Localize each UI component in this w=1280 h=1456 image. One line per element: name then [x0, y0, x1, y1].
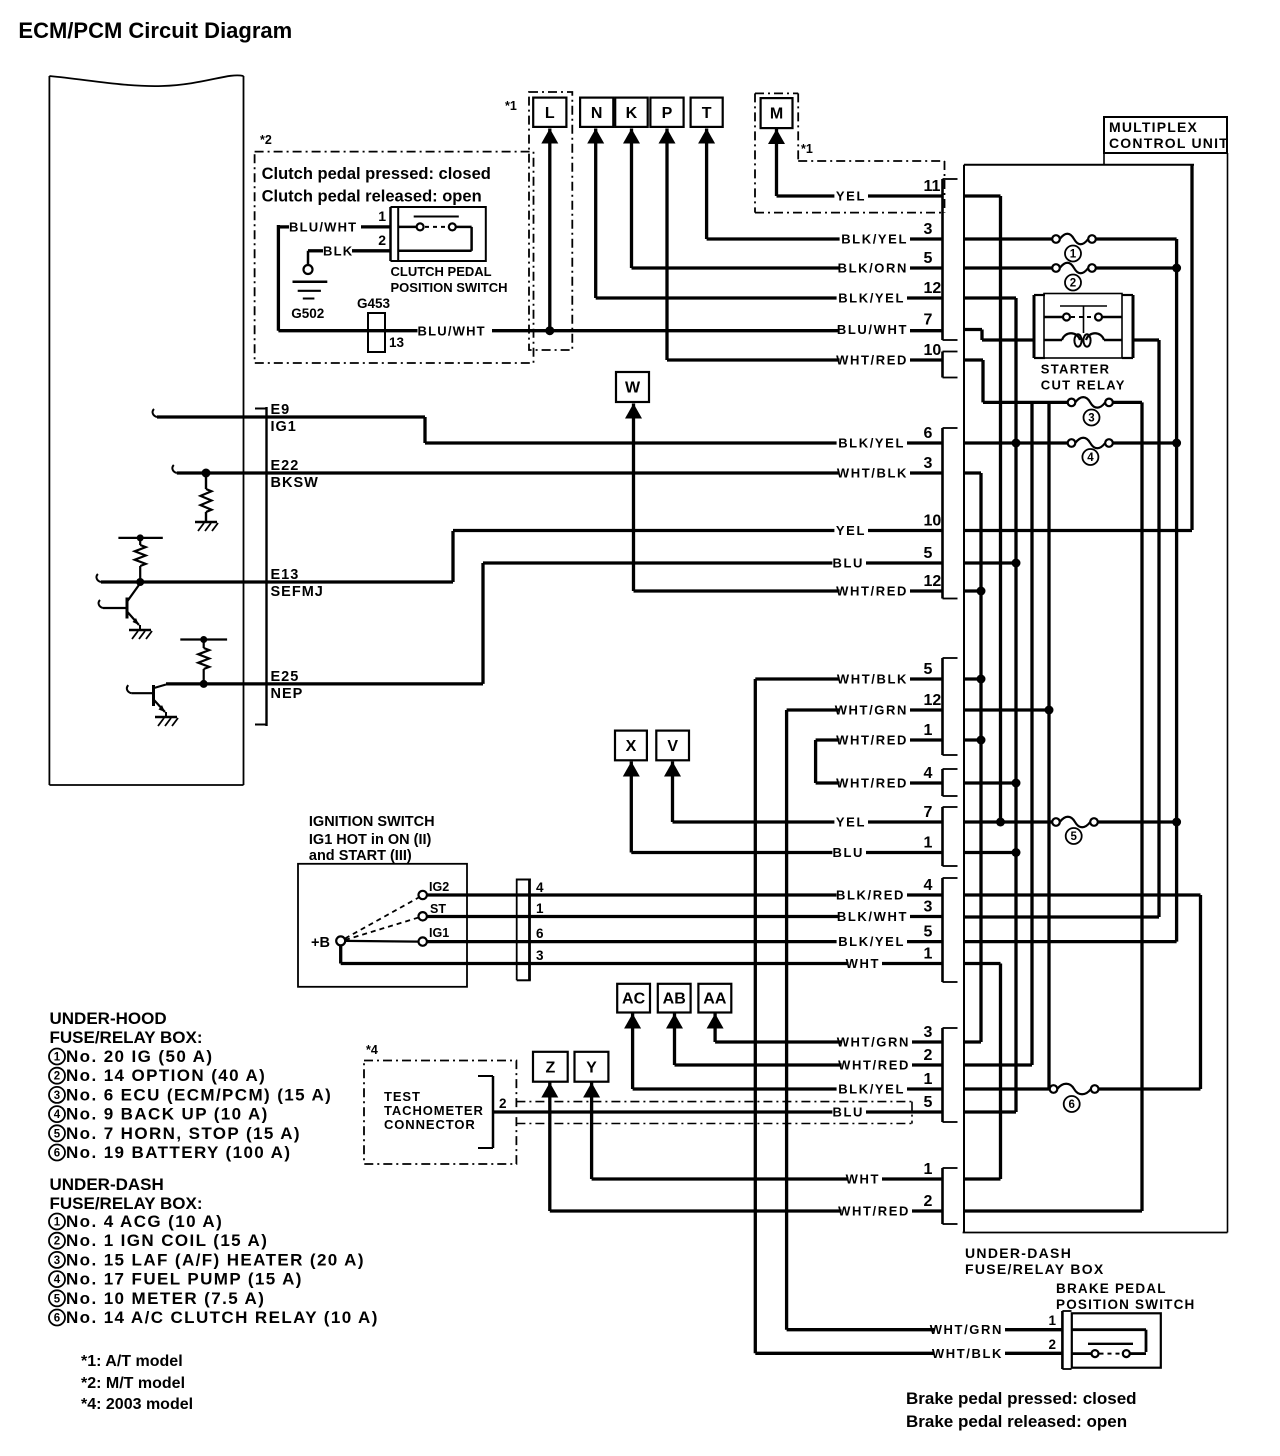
- svg-text:BLK/RED: BLK/RED: [836, 888, 905, 903]
- svg-text:WHT/BLK: WHT/BLK: [837, 466, 908, 481]
- svg-text:UNDER-HOOD: UNDER-HOOD: [50, 1009, 167, 1028]
- svg-text:WHT/GRN: WHT/GRN: [835, 703, 908, 718]
- svg-text:WHT/RED: WHT/RED: [838, 1204, 910, 1219]
- svg-text:1: 1: [378, 208, 386, 224]
- svg-text:13: 13: [389, 335, 405, 350]
- svg-text:FUSE/RELAY BOX: FUSE/RELAY BOX: [965, 1261, 1105, 1277]
- svg-text:2: 2: [378, 232, 386, 248]
- svg-text:5: 5: [924, 250, 933, 267]
- svg-text:No. 10 METER (7.5 A): No. 10 METER (7.5 A): [66, 1289, 265, 1308]
- svg-text:POSITION SWITCH: POSITION SWITCH: [391, 280, 508, 295]
- svg-text:Y: Y: [586, 1059, 597, 1076]
- svg-text:5: 5: [924, 545, 933, 562]
- svg-text:10: 10: [924, 513, 942, 530]
- svg-text:Clutch pedal released: open: Clutch pedal released: open: [262, 188, 482, 206]
- svg-text:12: 12: [924, 280, 942, 297]
- svg-text:6: 6: [536, 926, 544, 941]
- svg-text:3: 3: [924, 455, 933, 472]
- svg-text:*1: *1: [801, 142, 813, 156]
- svg-text:No. 19 BATTERY (100 A): No. 19 BATTERY (100 A): [66, 1143, 291, 1162]
- svg-text:2: 2: [499, 1096, 507, 1111]
- svg-text:Clutch pedal pressed: closed: Clutch pedal pressed: closed: [262, 165, 491, 183]
- svg-text:P: P: [662, 105, 673, 122]
- svg-text:IGNITION SWITCH: IGNITION SWITCH: [309, 814, 435, 830]
- svg-text:3: 3: [924, 1024, 933, 1041]
- svg-text:AB: AB: [663, 991, 686, 1008]
- svg-text:Z: Z: [545, 1059, 555, 1076]
- svg-text:IG1: IG1: [429, 926, 449, 940]
- svg-text:5: 5: [1070, 831, 1077, 843]
- svg-text:YEL: YEL: [836, 815, 866, 830]
- svg-text:Brake pedal pressed: closed: Brake pedal pressed: closed: [906, 1389, 1137, 1408]
- svg-text:11: 11: [924, 178, 941, 195]
- svg-text:5: 5: [54, 1128, 61, 1140]
- svg-text:1: 1: [924, 1161, 933, 1178]
- svg-text:TEST: TEST: [384, 1089, 421, 1104]
- svg-text:1: 1: [536, 901, 544, 916]
- svg-text:AC: AC: [622, 991, 646, 1008]
- svg-text:WHT: WHT: [846, 1172, 880, 1187]
- svg-text:WHT/RED: WHT/RED: [836, 776, 908, 791]
- svg-text:AA: AA: [703, 991, 727, 1008]
- svg-text:IG1: IG1: [271, 419, 297, 435]
- svg-text:2: 2: [54, 1236, 60, 1248]
- svg-text:WHT/GRN: WHT/GRN: [930, 1322, 1003, 1337]
- svg-text:FUSE/RELAY BOX:: FUSE/RELAY BOX:: [50, 1028, 203, 1047]
- svg-text:N: N: [591, 105, 603, 122]
- svg-text:BLU: BLU: [832, 845, 864, 860]
- svg-text:WHT/BLK: WHT/BLK: [837, 672, 908, 687]
- svg-text:+B: +B: [311, 935, 330, 951]
- svg-text:W: W: [625, 380, 641, 397]
- svg-text:2: 2: [924, 1193, 933, 1210]
- svg-text:CUT RELAY: CUT RELAY: [1041, 378, 1126, 393]
- svg-text:1: 1: [1048, 1313, 1056, 1328]
- svg-text:No. 9 BACK UP (10 A): No. 9 BACK UP (10 A): [66, 1105, 269, 1124]
- svg-text:No. 14 OPTION (40 A): No. 14 OPTION (40 A): [66, 1066, 266, 1085]
- svg-text:MULTIPLEX: MULTIPLEX: [1109, 119, 1198, 135]
- svg-text:3: 3: [924, 221, 933, 238]
- svg-text:WHT/RED: WHT/RED: [838, 1058, 910, 1073]
- svg-text:12: 12: [924, 573, 942, 590]
- svg-text:1: 1: [924, 946, 933, 963]
- svg-text:*2: M/T model: *2: M/T model: [81, 1375, 185, 1392]
- svg-text:IG2: IG2: [429, 880, 449, 894]
- svg-text:No. 4 ACG (10 A): No. 4 ACG (10 A): [66, 1212, 223, 1231]
- svg-text:No. 6 ECU (ECM/PCM) (15 A): No. 6 ECU (ECM/PCM) (15 A): [66, 1085, 332, 1104]
- svg-text:BLK/YEL: BLK/YEL: [838, 934, 905, 949]
- svg-text:BLK/YEL: BLK/YEL: [838, 1082, 905, 1097]
- svg-text:6: 6: [924, 425, 933, 442]
- svg-text:No. 7 HORN, STOP (15 A): No. 7 HORN, STOP (15 A): [66, 1124, 301, 1143]
- svg-text:M: M: [770, 106, 783, 123]
- svg-text:BLK/YEL: BLK/YEL: [841, 232, 908, 247]
- svg-text:STARTER: STARTER: [1041, 362, 1111, 377]
- svg-text:SEFMJ: SEFMJ: [271, 584, 324, 600]
- svg-text:10: 10: [924, 342, 942, 359]
- svg-text:T: T: [702, 105, 712, 122]
- svg-text:1: 1: [924, 722, 933, 739]
- svg-text:4: 4: [54, 1109, 61, 1121]
- svg-text:BLU/WHT: BLU/WHT: [418, 324, 486, 339]
- svg-text:*4: *4: [366, 1043, 378, 1057]
- svg-text:*1: A/T model: *1: A/T model: [81, 1353, 183, 1370]
- svg-text:5: 5: [54, 1293, 61, 1305]
- svg-text:No. 17 FUEL PUMP (15 A): No. 17 FUEL PUMP (15 A): [66, 1270, 303, 1289]
- svg-text:7: 7: [924, 804, 933, 821]
- svg-text:*1: *1: [505, 99, 517, 113]
- svg-text:WHT/RED: WHT/RED: [836, 353, 908, 368]
- svg-text:K: K: [626, 105, 638, 122]
- svg-text:1: 1: [924, 835, 933, 852]
- svg-text:No. 20 IG (50 A): No. 20 IG (50 A): [66, 1047, 213, 1066]
- svg-text:UNDER-DASH: UNDER-DASH: [965, 1245, 1072, 1261]
- svg-text:and START (III): and START (III): [309, 848, 412, 864]
- svg-text:4: 4: [924, 877, 933, 894]
- svg-text:6: 6: [54, 1313, 60, 1325]
- svg-text:G502: G502: [291, 306, 324, 321]
- svg-text:WHT/RED: WHT/RED: [836, 733, 908, 748]
- svg-text:BLU/WHT: BLU/WHT: [837, 322, 908, 337]
- svg-text:V: V: [667, 738, 678, 755]
- svg-text:Brake pedal released: open: Brake pedal released: open: [906, 1412, 1127, 1431]
- svg-text:2: 2: [1070, 278, 1076, 290]
- svg-text:ST: ST: [430, 902, 446, 916]
- svg-text:CONTROL UNIT: CONTROL UNIT: [1109, 135, 1229, 151]
- svg-text:TACHOMETER: TACHOMETER: [384, 1103, 484, 1118]
- svg-text:WHT/BLK: WHT/BLK: [932, 1346, 1003, 1361]
- svg-text:3: 3: [1088, 413, 1094, 425]
- svg-text:FUSE/RELAY BOX:: FUSE/RELAY BOX:: [50, 1194, 203, 1213]
- svg-text:4: 4: [1087, 452, 1094, 464]
- svg-text:IG1 HOT in ON (II): IG1 HOT in ON (II): [309, 832, 432, 848]
- svg-text:1: 1: [54, 1217, 61, 1229]
- svg-text:2: 2: [54, 1071, 60, 1083]
- svg-text:4: 4: [54, 1274, 61, 1286]
- svg-text:No. 14 A/C CLUTCH RELAY (10 A): No. 14 A/C CLUTCH RELAY (10 A): [66, 1308, 379, 1327]
- svg-text:3: 3: [54, 1090, 60, 1102]
- svg-text:4: 4: [536, 880, 544, 895]
- svg-text:6: 6: [1068, 1099, 1074, 1111]
- svg-text:5: 5: [924, 924, 933, 941]
- svg-text:YEL: YEL: [836, 523, 866, 538]
- svg-text:BKSW: BKSW: [271, 475, 319, 491]
- svg-text:BRAKE PEDAL: BRAKE PEDAL: [1056, 1281, 1167, 1296]
- svg-text:WHT/RED: WHT/RED: [836, 584, 908, 599]
- svg-text:BLK/WHT: BLK/WHT: [837, 909, 908, 924]
- svg-text:POSITION SWITCH: POSITION SWITCH: [1056, 1297, 1196, 1312]
- svg-text:*4: 2003 model: *4: 2003 model: [81, 1396, 193, 1413]
- svg-text:3: 3: [536, 948, 544, 963]
- svg-text:*2: *2: [260, 133, 272, 147]
- svg-text:6: 6: [54, 1148, 60, 1160]
- svg-text:1: 1: [924, 1071, 933, 1088]
- svg-text:WHT/GRN: WHT/GRN: [837, 1035, 910, 1050]
- svg-text:BLK/YEL: BLK/YEL: [838, 291, 905, 306]
- svg-text:G453: G453: [357, 296, 391, 311]
- svg-text:BLU/WHT: BLU/WHT: [289, 220, 357, 235]
- svg-text:4: 4: [924, 765, 933, 782]
- svg-text:ECM/PCM Circuit Diagram: ECM/PCM Circuit Diagram: [18, 18, 292, 43]
- svg-text:1: 1: [1070, 249, 1077, 261]
- svg-text:5: 5: [924, 661, 933, 678]
- svg-text:L: L: [545, 105, 555, 122]
- svg-text:1: 1: [54, 1052, 61, 1064]
- svg-text:BLU: BLU: [832, 556, 864, 571]
- svg-text:BLK: BLK: [323, 244, 353, 259]
- svg-text:No. 15 LAF (A/F) HEATER (20 A): No. 15 LAF (A/F) HEATER (20 A): [66, 1250, 365, 1269]
- svg-text:2: 2: [1048, 1337, 1056, 1352]
- svg-text:2: 2: [924, 1047, 933, 1064]
- svg-text:WHT: WHT: [846, 956, 880, 971]
- svg-text:No. 1 IGN COIL (15 A): No. 1 IGN COIL (15 A): [66, 1231, 268, 1250]
- svg-text:BLU: BLU: [832, 1105, 864, 1120]
- svg-text:UNDER-DASH: UNDER-DASH: [50, 1175, 164, 1194]
- svg-text:7: 7: [924, 312, 933, 329]
- svg-text:X: X: [626, 738, 637, 755]
- svg-text:3: 3: [924, 899, 933, 916]
- svg-text:5: 5: [924, 1094, 933, 1111]
- svg-text:BLK/ORN: BLK/ORN: [838, 261, 908, 276]
- svg-text:BLK/YEL: BLK/YEL: [838, 436, 905, 451]
- svg-text:CLUTCH PEDAL: CLUTCH PEDAL: [391, 264, 492, 279]
- svg-text:YEL: YEL: [836, 189, 866, 204]
- svg-text:12: 12: [924, 692, 942, 709]
- svg-text:3: 3: [54, 1255, 60, 1267]
- svg-text:NEP: NEP: [271, 686, 304, 702]
- svg-text:CONNECTOR: CONNECTOR: [384, 1117, 476, 1132]
